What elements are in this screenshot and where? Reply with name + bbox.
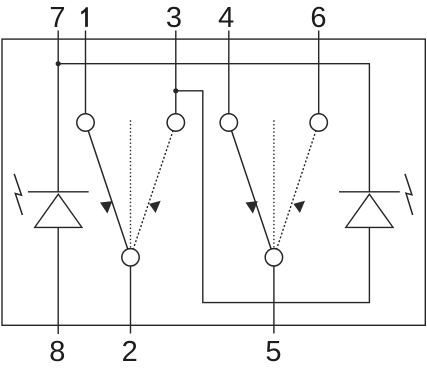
switch S2 actuation arrow right bbox=[293, 201, 305, 213]
pin 8 lead wire bbox=[57, 227, 59, 334]
svg-text:4: 4 bbox=[218, 2, 234, 34]
contact circle pin 4 bbox=[220, 114, 237, 131]
pin 6 lead wire bbox=[318, 31, 320, 123]
pin 4 lead wire bbox=[228, 31, 230, 123]
pin 7 lead wire (down to lamp LA1) bbox=[57, 31, 59, 192]
lamp LA2 flash symbol bbox=[405, 174, 413, 215]
common contact circle pin 5 bbox=[265, 249, 282, 266]
component body outline bbox=[2, 39, 425, 325]
pin 3 lead wire bbox=[175, 31, 177, 123]
switch S1 center travel dotted line bbox=[130, 120, 132, 257]
switch S1 alternate throw dotted (common 2 to pin 3) bbox=[131, 123, 176, 258]
lamp LA2 triangle bbox=[346, 194, 393, 227]
lamp LA1 triangle bbox=[35, 194, 82, 227]
common contact circle pin 2 bbox=[122, 249, 139, 266]
svg-text:6: 6 bbox=[310, 2, 326, 34]
junction dot at pin 3 bbox=[173, 88, 178, 93]
lamp LA2 cathode bar bbox=[339, 191, 400, 193]
switch S2 actuation arrow left bbox=[246, 201, 258, 214]
switch S2 center travel dotted line bbox=[273, 120, 275, 257]
wire from pin 3 junction to right lamp LA2 bottom bbox=[176, 91, 370, 303]
pin 1 lead wire bbox=[85, 31, 87, 123]
svg-text:7: 7 bbox=[49, 2, 65, 34]
junction dot at pin 7 bbox=[56, 61, 61, 66]
svg-text:5: 5 bbox=[265, 336, 281, 368]
pin 2 lead wire bbox=[130, 257, 132, 333]
switch S1 actuation arrow right bbox=[149, 201, 161, 213]
pin 1 label bbox=[81, 7, 88, 27]
contact circle pin 6 bbox=[310, 114, 327, 131]
lamp LA1 flash symbol bbox=[14, 174, 22, 215]
contact circle pin 1 bbox=[77, 114, 94, 131]
svg-text:8: 8 bbox=[49, 336, 65, 368]
contact circle pin 3 bbox=[167, 114, 184, 131]
wire rail from pin 7 junction to right lamp LA2 top bbox=[58, 64, 369, 192]
svg-text:2: 2 bbox=[122, 336, 138, 368]
svg-text:3: 3 bbox=[166, 2, 182, 34]
pin 5 lead wire bbox=[273, 257, 275, 333]
switch S1 lever solid (pin 1 to common 2) bbox=[86, 123, 131, 258]
lamp LA1 cathode bar bbox=[28, 191, 89, 193]
switch S2 alternate throw dotted (common 5 to pin 6) bbox=[274, 123, 319, 258]
switch S2 lever solid (pin 4 to common 5) bbox=[229, 123, 274, 258]
switch S1 actuation arrow left bbox=[100, 201, 112, 214]
